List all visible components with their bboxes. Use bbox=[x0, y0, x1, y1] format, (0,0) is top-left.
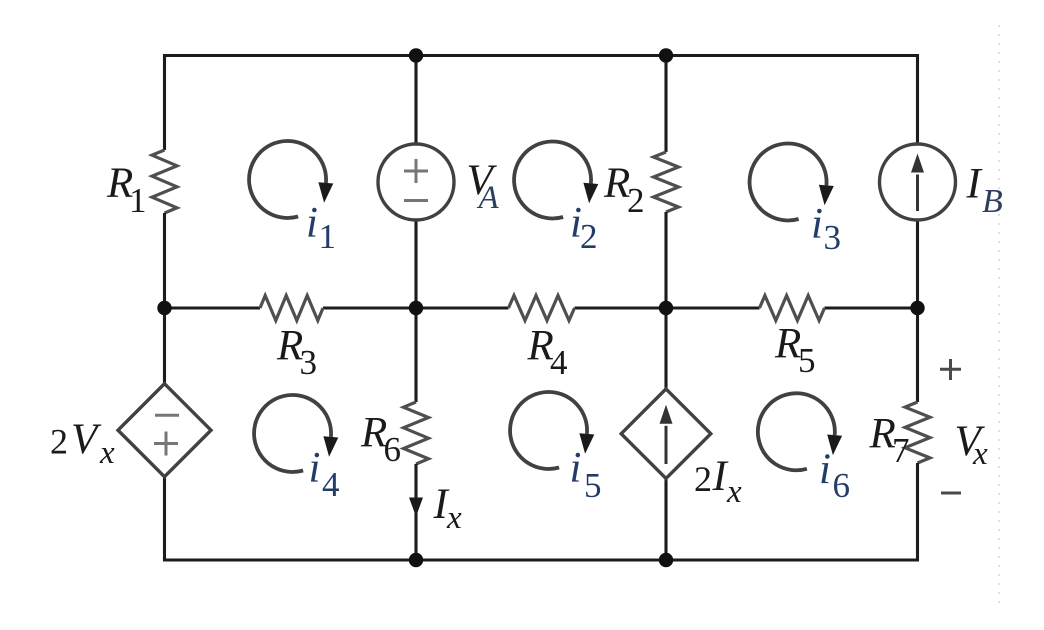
svg-text:2: 2 bbox=[627, 181, 645, 220]
svg-text:i: i bbox=[306, 200, 318, 247]
svg-text:4: 4 bbox=[550, 343, 568, 382]
svg-text:1: 1 bbox=[129, 181, 147, 220]
svg-text:6: 6 bbox=[384, 430, 402, 469]
svg-text:i: i bbox=[309, 445, 321, 492]
svg-text:x: x bbox=[99, 435, 115, 471]
svg-text:x: x bbox=[972, 436, 988, 472]
svg-text:B: B bbox=[982, 183, 1003, 220]
svg-text:1: 1 bbox=[319, 217, 337, 256]
svg-text:2: 2 bbox=[50, 422, 68, 462]
svg-text:5: 5 bbox=[584, 466, 602, 505]
svg-text:x: x bbox=[446, 500, 462, 536]
svg-text:3: 3 bbox=[300, 343, 318, 382]
svg-text:I: I bbox=[712, 453, 729, 500]
svg-text:i: i bbox=[811, 201, 823, 248]
svg-text:3: 3 bbox=[824, 218, 842, 257]
svg-text:2: 2 bbox=[694, 459, 712, 499]
svg-text:I: I bbox=[966, 161, 983, 208]
svg-text:6: 6 bbox=[833, 466, 851, 505]
svg-text:4: 4 bbox=[322, 465, 340, 504]
svg-text:A: A bbox=[477, 180, 500, 216]
svg-text:7: 7 bbox=[892, 431, 910, 470]
svg-text:i: i bbox=[570, 445, 582, 492]
svg-text:x: x bbox=[726, 474, 742, 510]
svg-text:2: 2 bbox=[580, 217, 598, 256]
svg-text:i: i bbox=[819, 446, 831, 493]
svg-text:5: 5 bbox=[798, 341, 816, 380]
